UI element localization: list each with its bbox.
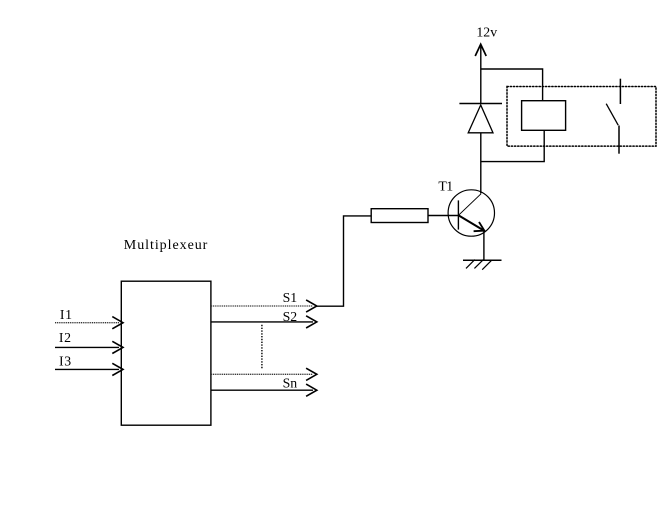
svg-text:12v: 12v — [476, 24, 497, 39]
input I3 arrowhead — [112, 363, 123, 375]
output S(n-1) arrowhead — [306, 368, 317, 380]
wire emitter to ground — [483, 231, 485, 261]
transistor T1 body circle — [448, 190, 494, 236]
output S1 wire (dotted) — [211, 305, 313, 307]
svg-text:I1: I1 — [60, 307, 73, 322]
svg-text:I3: I3 — [59, 353, 72, 368]
input I3 wire — [55, 368, 119, 370]
transistor T1 collector diagonal — [459, 194, 481, 215]
diode D1 cathode bar — [459, 103, 502, 105]
output Sn wire — [211, 389, 313, 391]
svg-text:S1: S1 — [283, 290, 298, 305]
wire 12v junction to relay coil top — [481, 69, 543, 102]
wire diode anode to collector — [480, 134, 482, 194]
output S(n-1) wire (dotted) — [211, 373, 313, 375]
input I1 wire (dotted) — [55, 322, 119, 324]
input I2 arrowhead — [112, 341, 123, 353]
input I2 wire — [55, 346, 119, 348]
relay coil K1 — [522, 101, 566, 131]
diode D1 — [468, 105, 493, 133]
resistor R1 — [371, 209, 428, 223]
wire junction to relay coil bottom — [481, 130, 544, 162]
input I1 arrowhead — [112, 317, 123, 329]
wire S1 to resistor — [316, 216, 371, 306]
wire 12v rail upper — [480, 47, 482, 105]
svg-text:I2: I2 — [59, 330, 72, 345]
12v supply arrow — [475, 44, 486, 56]
ellipsis dotted vertical between outputs — [261, 325, 263, 370]
svg-text:T1: T1 — [438, 179, 453, 194]
ground hatch 2 — [474, 260, 483, 269]
output S1 arrowhead — [306, 300, 317, 312]
transistor T1 emitter arrowhead — [474, 222, 485, 231]
ground bar — [463, 259, 502, 261]
output Sn arrowhead — [306, 384, 317, 396]
svg-text:Multiplexeur: Multiplexeur — [124, 238, 209, 253]
ground hatch 3 — [482, 261, 491, 270]
wire resistor to base — [428, 215, 458, 217]
relay contact bottom terminal — [618, 126, 620, 154]
relay enclosure dotted box — [507, 87, 656, 147]
multiplexer box — [121, 281, 211, 425]
transistor T1 emitter diagonal — [459, 215, 484, 230]
svg-text:Sn: Sn — [283, 376, 298, 391]
ground hatch 1 — [466, 260, 475, 269]
transistor T1 base bar — [457, 200, 459, 229]
relay contact blade — [606, 104, 618, 126]
output S2 arrowhead — [306, 316, 317, 328]
output S2 wire — [211, 321, 313, 323]
relay contact top terminal — [619, 79, 621, 104]
